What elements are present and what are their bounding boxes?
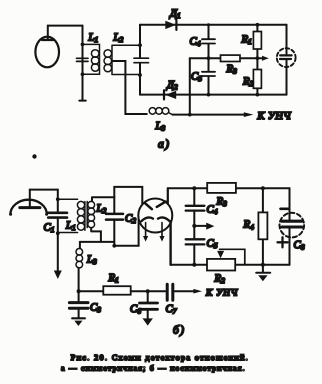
plus sign C8 [278,237,288,247]
wiper link wire [220,249,245,264]
ground C3 [72,318,85,326]
svg-text:L2: L2 [96,203,107,216]
indicator tube (a) [277,25,296,95]
wire output line (b) [79,290,166,292]
node Rn bottom rail [261,263,265,267]
wire L2 secondary vertical [139,25,141,95]
wire L2 bottom path [80,228,114,242]
arrow to indicator [257,56,268,61]
svg-text:К УНЧ: К УНЧ [205,289,238,299]
inductor L2 [104,45,140,74]
wire L2 top to C2 column [92,197,114,201]
wire drop to KUNCH line [189,58,191,114]
tube bottom-right lead [169,223,171,265]
capacitor C7 [167,284,173,300]
svg-text:R2: R2 [242,76,254,89]
cathode arrow right [159,223,164,242]
capacitor C8 electrolytic [280,213,305,265]
node rail C4 [207,23,210,26]
svg-text:C2: C2 [125,213,136,226]
capacitor C5 (a) [202,58,215,94]
wire C2 bottom to tube [114,220,138,246]
diode D2 [164,90,176,99]
wire center tap to L3 [112,61,147,114]
svg-text:R2: R2 [214,273,226,286]
ink speck [32,154,36,158]
resistor R2 (b) potentiometer [207,259,235,271]
capacitor C4 (a) [202,25,215,58]
node KUNCH drop [188,113,192,117]
svg-text:а): а) [158,139,170,151]
capacitor C2 [106,197,123,246]
node mid C4/C5 [207,56,211,60]
svg-text:C5: C5 [207,238,218,251]
node C5 bottom rail [192,263,196,267]
svg-text:C7: C7 [166,303,177,316]
inductor L1 (b) [58,199,85,232]
resistor R1 (b) [103,286,130,295]
wire mid node (a) [190,57,258,59]
wiper arrow from node [194,223,214,230]
tube V1 (a) [35,37,59,68]
capacitor L1 tank [77,58,89,61]
capacitor C1 [48,199,67,233]
minus sign C8 [281,208,289,211]
capacitor L2 tank [134,58,149,63]
node rail Rn [261,186,265,190]
cathode arrow left [143,223,148,242]
node C6 [146,289,150,293]
node C1 bottom [56,231,60,235]
wire L3 bottom [78,268,80,291]
wire bottom rail (a) [140,94,287,96]
node bottom R2 [256,93,260,97]
wire bottom rail (b) [171,264,290,266]
tube V1 (b) [9,200,48,216]
svg-text:C3: C3 [90,302,101,315]
node L3/C3 [77,289,81,293]
node C4/C5 (b) [192,224,196,228]
node R1/R2 [256,56,260,60]
svg-text:C5: C5 [191,71,202,84]
inductor L3 (a) [149,108,172,115]
svg-text:L1: L1 [65,220,76,233]
svg-text:R4: R4 [243,219,255,232]
svg-text:C1: C1 [44,222,55,235]
svg-text:C6: C6 [130,303,141,316]
wire C2 column and top rail left [114,187,142,204]
wire KUNCH arrow (a) [173,112,254,117]
node L2 bottom [138,73,142,77]
svg-text:C8: C8 [294,239,305,252]
svg-text:R1: R1 [241,34,252,47]
capacitor C3 [69,291,88,318]
capacitor C5 (b) [186,226,205,265]
svg-text:б): б) [173,325,185,337]
resistor R3 (a) [221,55,241,61]
wire anode to L1 tank [48,26,83,40]
resistor R1 (a) [253,25,261,58]
svg-text:L3: L3 [86,254,97,267]
ground (b right) [256,265,270,282]
svg-text:L2: L2 [113,32,124,45]
wire anode (b) [30,190,58,208]
svg-text:C4: C4 [190,36,201,49]
node C1 top [56,197,60,201]
diode D1 [165,20,176,30]
wire top rail (b) [168,188,290,220]
resistor R3 (b) [207,183,236,193]
svg-text:R3: R3 [226,63,238,76]
svg-text:Д1: Д1 [169,8,181,21]
wire L1 tank vertical [79,26,86,101]
resistor R2 (a) [253,58,261,94]
tube top-right lead [167,188,169,203]
node L1 top [81,43,85,47]
node L2 top [138,43,142,47]
svg-text:Рис. 20. Схемы детектора отнош: Рис. 20. Схемы детектора отношений. [71,353,249,362]
node rail R1 [256,23,260,27]
wire down arrow (b) [54,233,62,279]
wire L3 top link (b) [79,242,81,248]
svg-text:К УНЧ: К УНЧ [257,111,292,122]
capacitor C4 (b) [186,188,205,226]
capacitor C6 [140,291,158,325]
node L1 bottom [81,72,85,76]
detector tube (b) [138,199,172,233]
node bottom C5 [207,93,211,97]
node C2 bottom [112,244,116,248]
inductor L3 (b) [76,249,83,268]
resistor Rn [258,188,267,264]
wire KUNCH arrow (b) [175,289,203,294]
svg-text:L3: L3 [155,120,166,133]
svg-text:L1: L1 [88,32,99,45]
node rail C4 (b) [192,186,196,190]
svg-text:R1: R1 [108,272,119,285]
inductor L1 [83,44,100,74]
svg-text:а — симметричная; б — несиммет: а — симметричная; б — несимметричная. [61,364,246,373]
svg-text:Д2: Д2 [166,79,178,92]
inductor L2 (b) [87,201,94,227]
wiper down arrow onto R2 [217,251,224,258]
wire top rail (a) [140,24,287,26]
